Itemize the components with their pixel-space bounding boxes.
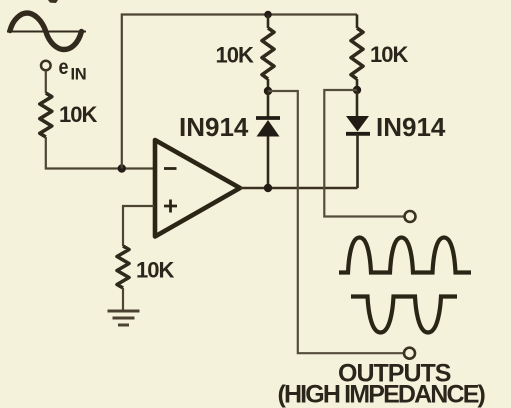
wire op-amp output — [240, 187, 358, 189]
wire R3 to ground — [122, 288, 124, 310]
resistor Rin 10K — [40, 93, 52, 137]
wire terminal to input resistor — [45, 71, 47, 94]
wire R1 top lead — [267, 15, 270, 29]
terminal eIN — [41, 61, 51, 71]
terminal output 2 — [404, 348, 415, 359]
op-amp U1 — [155, 140, 240, 237]
resistor R2 10K — [351, 15, 363, 91]
svg-text:IN914: IN914 — [179, 112, 249, 142]
svg-text:e: e — [59, 56, 69, 79]
svg-text:IN914: IN914 — [376, 112, 446, 142]
wire D2 node to output 1 terminal — [324, 90, 404, 217]
waveform inverted output — [351, 297, 457, 333]
wire R1 bottom lead — [267, 79, 270, 91]
terminal output 1 — [405, 211, 416, 222]
node output junction — [264, 184, 272, 192]
node R2 / D2 anode — [353, 86, 361, 94]
wire D1 node to output 2 terminal — [268, 91, 404, 353]
node R1 / D1 cathode — [264, 87, 272, 95]
sine-wave source symbol — [7, 13, 86, 50]
wire feedback (minus node up and across top) — [122, 15, 357, 169]
ground — [108, 311, 140, 325]
node R1 top — [264, 11, 272, 19]
resistor R1 10K — [262, 28, 274, 79]
waveform full-wave rectified output — [339, 238, 471, 273]
resistor R3 10K — [117, 246, 129, 288]
wire plus input to R3 — [123, 206, 154, 246]
svg-text:(HIGH IMPEDANCE): (HIGH IMPEDANCE) — [278, 381, 486, 408]
svg-text:10K: 10K — [59, 102, 97, 127]
diode D2 IN914 (cathode down) — [346, 90, 370, 188]
diode D1 IN914 (cathode up) — [256, 91, 280, 188]
wire Rin bottom to inverting input — [46, 137, 154, 169]
svg-text:10K: 10K — [370, 42, 408, 67]
svg-text:10K: 10K — [136, 258, 174, 283]
svg-text:IN: IN — [71, 66, 87, 84]
svg-text:10K: 10K — [216, 43, 254, 68]
node minus-input junction — [118, 164, 126, 172]
